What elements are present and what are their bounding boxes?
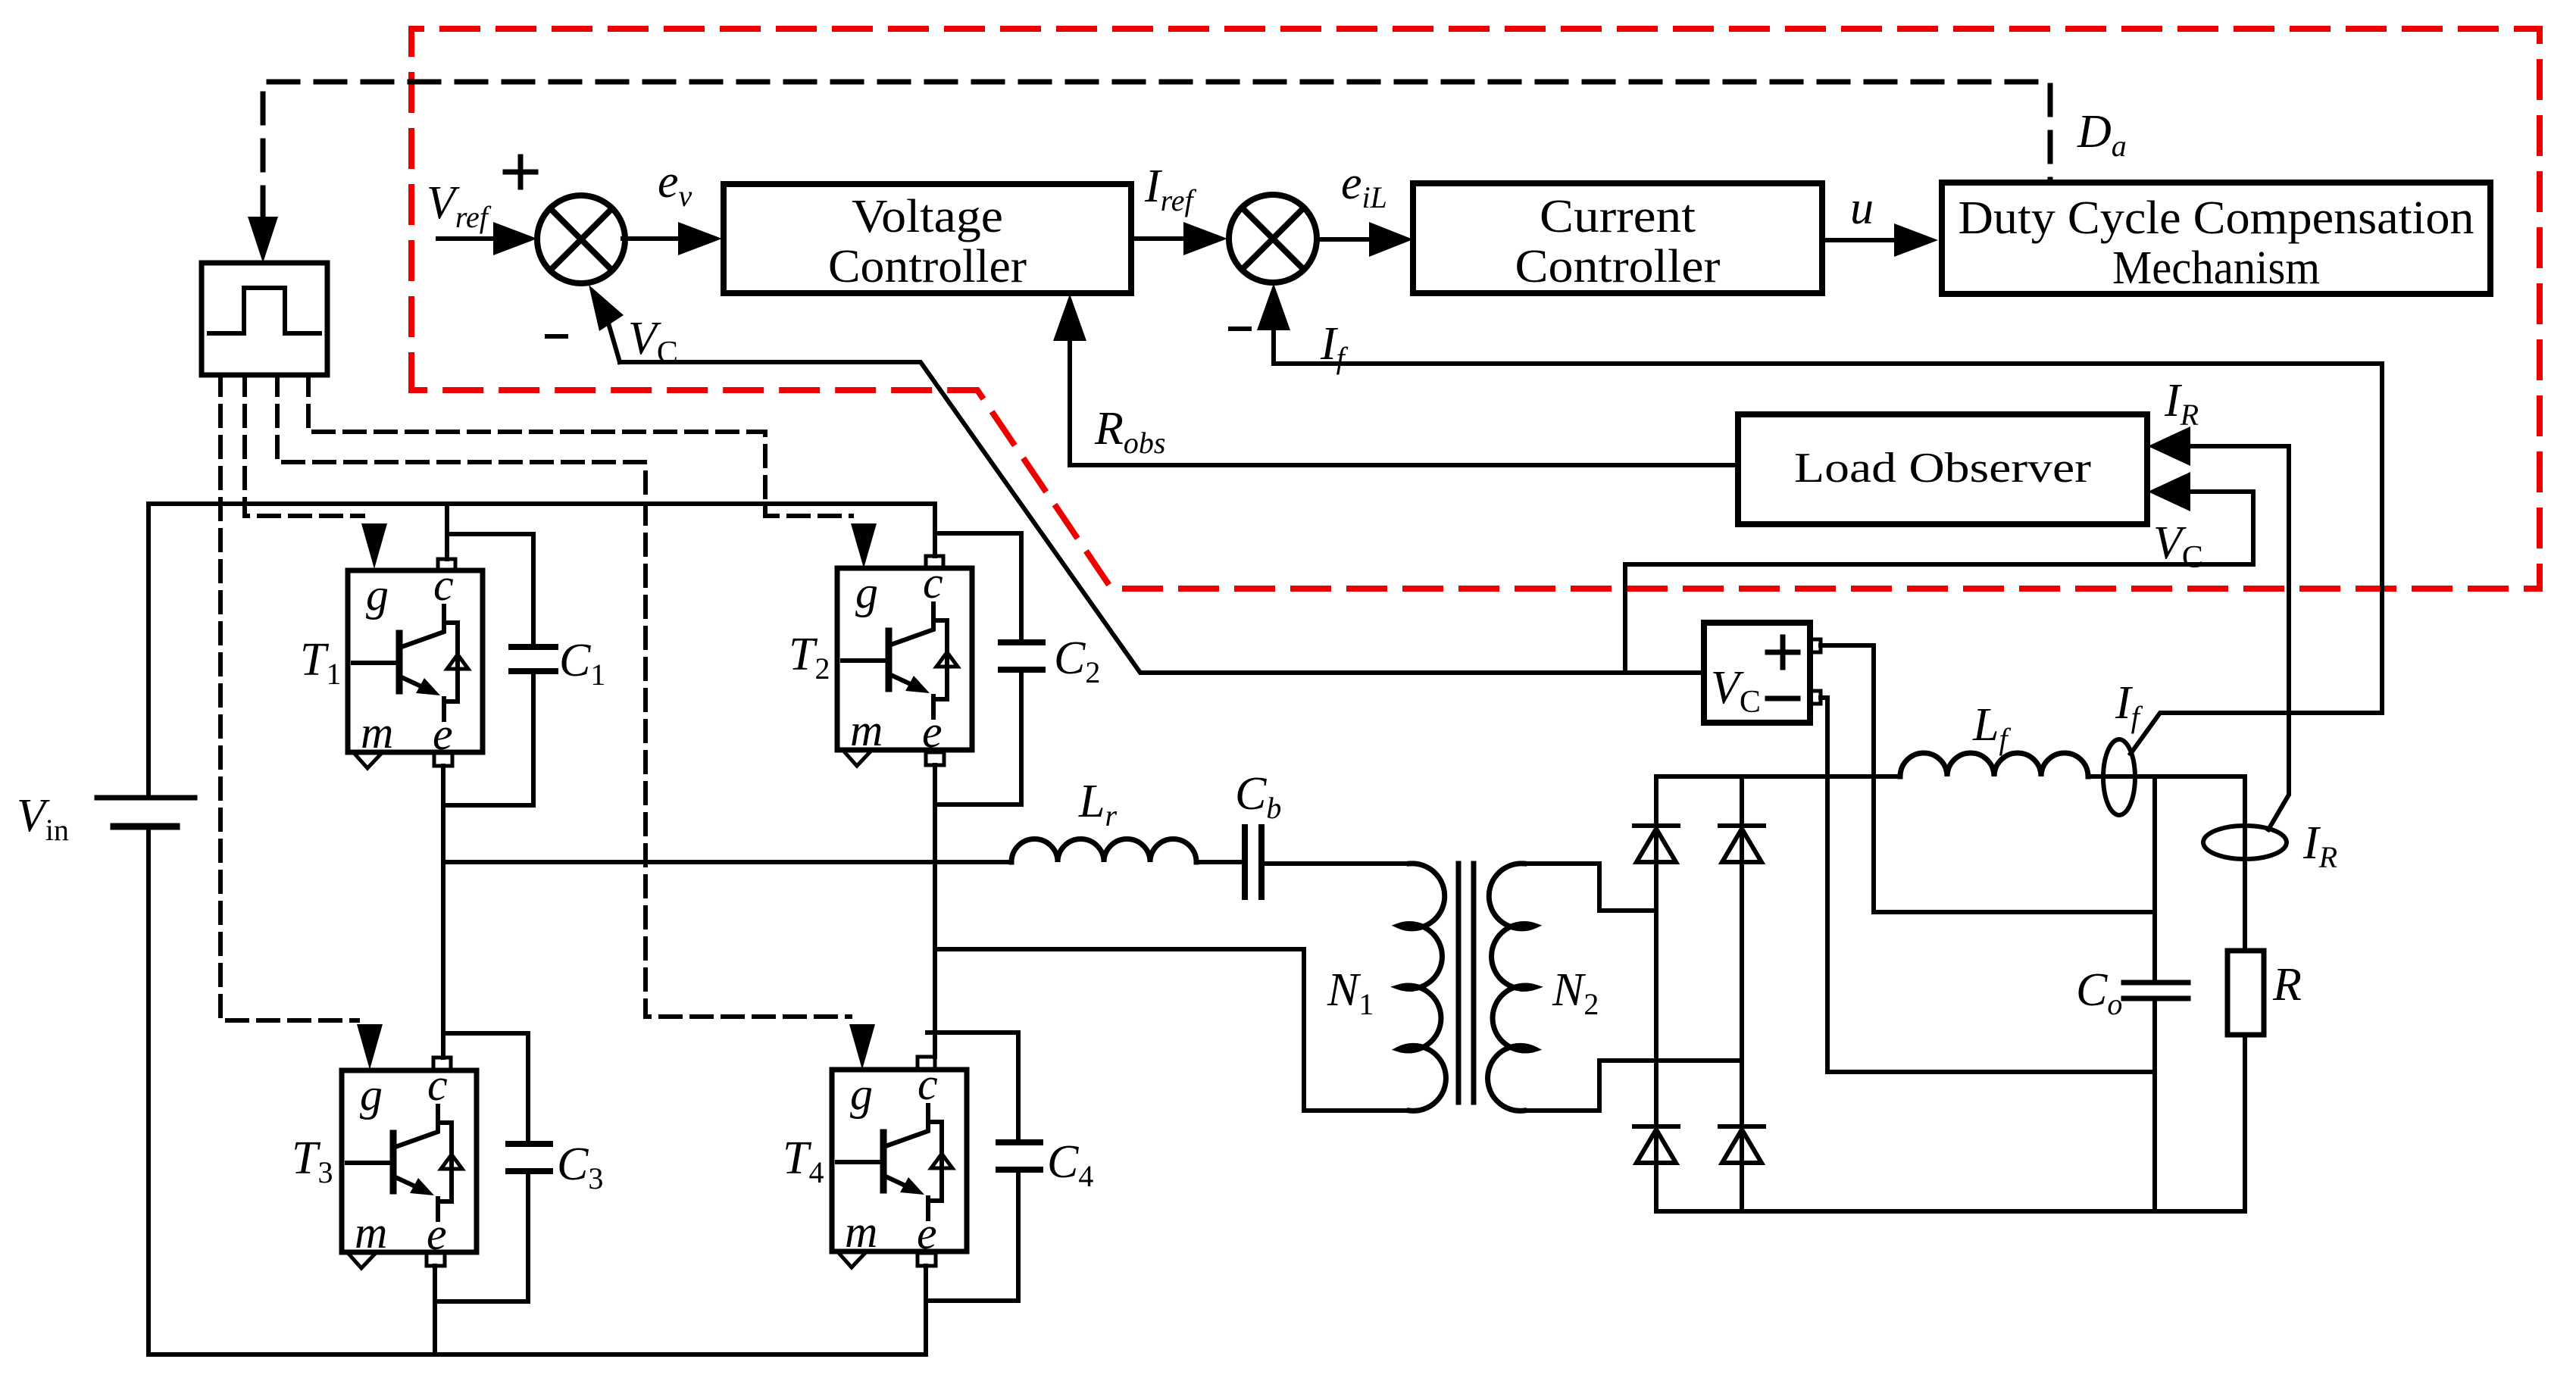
wire T2 collector: [933, 504, 937, 556]
svg-text:Vin: Vin: [17, 790, 69, 847]
svg-text:T4: T4: [783, 1133, 824, 1189]
label minus at current summing junction: [1230, 327, 1249, 331]
rectifier left rail: [1654, 776, 1658, 1211]
T4 collector terminal: [918, 1057, 935, 1069]
capacitor C1 top branch: [447, 534, 533, 647]
wire Lf to load node: [2088, 774, 2245, 779]
IGBT module T2: [837, 558, 972, 766]
svg-text:T2: T2: [789, 629, 830, 686]
red dashed controller boundary: [411, 29, 2540, 589]
capacitor C4 bottom branch: [926, 1170, 1018, 1301]
wire rectifier output bottom: [1656, 1209, 2245, 1214]
svg-text:If: If: [2115, 677, 2143, 734]
label minus at voltage summing junction: [547, 334, 566, 339]
svg-text:Vref: Vref: [427, 177, 492, 234]
svg-text:C1: C1: [559, 635, 605, 692]
svg-text:VC: VC: [1711, 662, 1761, 720]
T1 emitter terminal: [434, 753, 452, 766]
wire output node down to load: [2243, 776, 2247, 951]
diode D3: [1634, 1126, 1678, 1163]
T4 emitter terminal: [918, 1253, 936, 1266]
diode D1: [1634, 826, 1678, 862]
current controller box: [1413, 183, 1822, 293]
resonant inductor Lr: [1011, 839, 1196, 863]
svg-text:C3: C3: [557, 1139, 603, 1195]
capacitor C3 bottom branch: [435, 1171, 528, 1301]
svg-text:IR: IR: [2164, 375, 2199, 432]
wire left bus to Vin plus: [146, 504, 151, 798]
load observer box: [1738, 414, 2147, 524]
duty cycle compensation box: [1942, 183, 2490, 294]
svg-text:m: m: [361, 708, 393, 758]
svg-text:C2: C2: [1054, 633, 1100, 689]
wire ev: [623, 236, 678, 241]
wire u: [1822, 238, 1894, 242]
PWM pulse generator block: [202, 263, 327, 375]
current sensor IR: [2203, 826, 2287, 859]
IGBT module T4: [832, 1059, 967, 1267]
wire T1 collector: [445, 504, 449, 559]
T2 collector terminal: [926, 556, 943, 568]
svg-text:Voltage: Voltage: [852, 191, 1003, 242]
arrow Iref into current summing junction: [1183, 222, 1227, 255]
battery source Vin: [97, 798, 195, 826]
arrow IR into load observer: [2148, 426, 2190, 466]
arrow u into duty cycle box: [1894, 223, 1938, 257]
wire Vref input: [438, 236, 493, 241]
voltage controller box: [724, 184, 1131, 293]
T2 emitter terminal: [926, 752, 944, 765]
svg-text:If: If: [1320, 318, 1349, 375]
capacitor C2 top branch: [935, 533, 1021, 642]
output capacitor Co: [2124, 983, 2188, 998]
current sensor If: [2103, 739, 2135, 815]
label plus at voltage summing junction: [505, 157, 536, 187]
svg-text:T1: T1: [300, 634, 341, 691]
wire Iref: [1131, 236, 1182, 241]
transformer core: [1458, 864, 1474, 1102]
gate drive dashed wire T3: [220, 375, 358, 1020]
arrow Vref into junction: [493, 222, 537, 255]
svg-text:C4: C4: [1047, 1136, 1093, 1193]
voltage summing junction: [537, 195, 625, 283]
diode D4: [1720, 1126, 1764, 1163]
current summing junction: [1229, 195, 1317, 283]
gate drive dashed wire T2: [308, 375, 852, 516]
wire Lr to Cb: [1196, 860, 1244, 864]
wire secondary bottom to rectifier: [1523, 1061, 1742, 1111]
wire Vc minus to output negative: [1821, 698, 2155, 1072]
wire Co to bottom rail: [2152, 998, 2157, 1211]
svg-text:R: R: [2272, 959, 2302, 1011]
wire node B to transformer primary bottom: [935, 949, 1411, 1111]
svg-text:c: c: [433, 560, 454, 610]
capacitor C4 top branch: [927, 1033, 1018, 1142]
svg-text:Load Observer: Load Observer: [1794, 445, 2091, 492]
capacitor C1: [511, 647, 555, 671]
capacitor C4: [999, 1142, 1040, 1170]
svg-text:Duty Cycle Compensation: Duty Cycle Compensation: [1959, 192, 2474, 244]
wire rectifier output top: [1656, 774, 1900, 779]
svg-text:Robs: Robs: [1094, 403, 1165, 460]
transformer secondary winding N2: [1488, 864, 1535, 1111]
gate arrow T2: [851, 523, 877, 568]
output capacitor branch: [2152, 776, 2157, 983]
capacitor C2 bottom branch: [935, 670, 1021, 805]
wire T2 emitter to T4 collector: [933, 765, 937, 1057]
wire IR feedback to load observer: [2156, 446, 2289, 830]
svg-text:Controller: Controller: [828, 241, 1027, 292]
gate drive dashed wire T4: [277, 375, 850, 1017]
T1 collector terminal: [438, 559, 455, 570]
wire Vc sense line to voltage summing junction: [620, 362, 1704, 673]
diode D2: [1720, 826, 1764, 862]
svg-text:Iref: Iref: [1144, 161, 1196, 217]
wire node A down to T3: [441, 861, 445, 1058]
capacitor C2: [1001, 642, 1043, 670]
gate drive dashed wire T1: [245, 375, 363, 516]
svg-text:eiL: eiL: [1341, 158, 1387, 214]
wire If feedback: [1274, 330, 2382, 754]
arrow If into current summing junction: [1257, 283, 1290, 330]
arrow Vc into voltage summing junction: [609, 326, 620, 362]
wire Robs: [1070, 341, 1738, 465]
capacitor C3: [508, 1144, 550, 1171]
svg-text:T3: T3: [292, 1133, 333, 1189]
wire T3 emitter to bottom rail: [433, 1266, 437, 1354]
svg-text:Co: Co: [2076, 964, 2122, 1021]
gate arrow T1: [361, 523, 387, 569]
arrow into PWM generator: [248, 217, 278, 263]
svg-text:Mechanism: Mechanism: [2112, 242, 2320, 294]
wire node A to resonant inductor: [443, 860, 1011, 864]
transformer primary winding N1: [1399, 864, 1446, 1111]
IGBT module T1: [348, 560, 483, 768]
wire secondary top to rectifier: [1523, 864, 1656, 911]
load resistor R: [2227, 951, 2264, 1035]
voltage sensor Vc box: [1704, 623, 1821, 723]
wire T1 emitter to node A: [441, 766, 445, 861]
wire Vc branch to load observer: [1625, 492, 2253, 673]
filter inductor Lf: [1900, 753, 2088, 776]
wire Vc plus to output positive: [1821, 645, 2155, 912]
svg-text:N2: N2: [1552, 964, 1599, 1021]
wire T4 emitter to bottom rail: [924, 1266, 928, 1354]
wire Vin minus to bottom rail: [146, 826, 151, 1354]
wire bottom return rail: [148, 1352, 926, 1357]
wire Cb to transformer primary top: [1261, 861, 1411, 866]
IGBT module T3: [342, 1060, 477, 1268]
svg-text:u: u: [1850, 183, 1874, 234]
svg-text:Lr: Lr: [1078, 776, 1117, 833]
rectifier right rail: [1740, 776, 1744, 1211]
svg-text:g: g: [366, 570, 389, 620]
svg-text:VC: VC: [2153, 517, 2203, 575]
blocking capacitor Cb: [1245, 827, 1261, 897]
arrow Robs into voltage controller: [1053, 294, 1086, 341]
svg-text:ev: ev: [658, 156, 692, 213]
svg-text:Da: Da: [2077, 106, 2127, 163]
svg-text:Controller: Controller: [1515, 241, 1721, 292]
capacitor C3 top branch: [443, 1033, 528, 1144]
svg-text:N1: N1: [1327, 964, 1374, 1021]
arrow ev into voltage controller: [678, 222, 722, 255]
arrow eiL into current controller: [1369, 222, 1413, 257]
gate arrow T4: [849, 1024, 875, 1070]
svg-text:Cb: Cb: [1235, 768, 1281, 825]
svg-text:Current: Current: [1540, 191, 1696, 242]
svg-text:VC: VC: [628, 313, 678, 370]
wire R to bottom rail: [2243, 1035, 2247, 1211]
wire eiL: [1317, 237, 1371, 242]
gate arrow T3: [357, 1024, 383, 1070]
svg-text:IR: IR: [2302, 817, 2337, 874]
capacitor C1 bottom branch: [443, 671, 533, 805]
T3 emitter terminal: [427, 1253, 445, 1266]
wire input DC bus top rail: [148, 501, 935, 506]
arrow Vc into load observer: [2148, 472, 2190, 511]
svg-text:Lf: Lf: [1972, 699, 2011, 756]
T3 collector terminal: [433, 1058, 451, 1070]
black dashed Da feedback wire: [263, 82, 2050, 217]
